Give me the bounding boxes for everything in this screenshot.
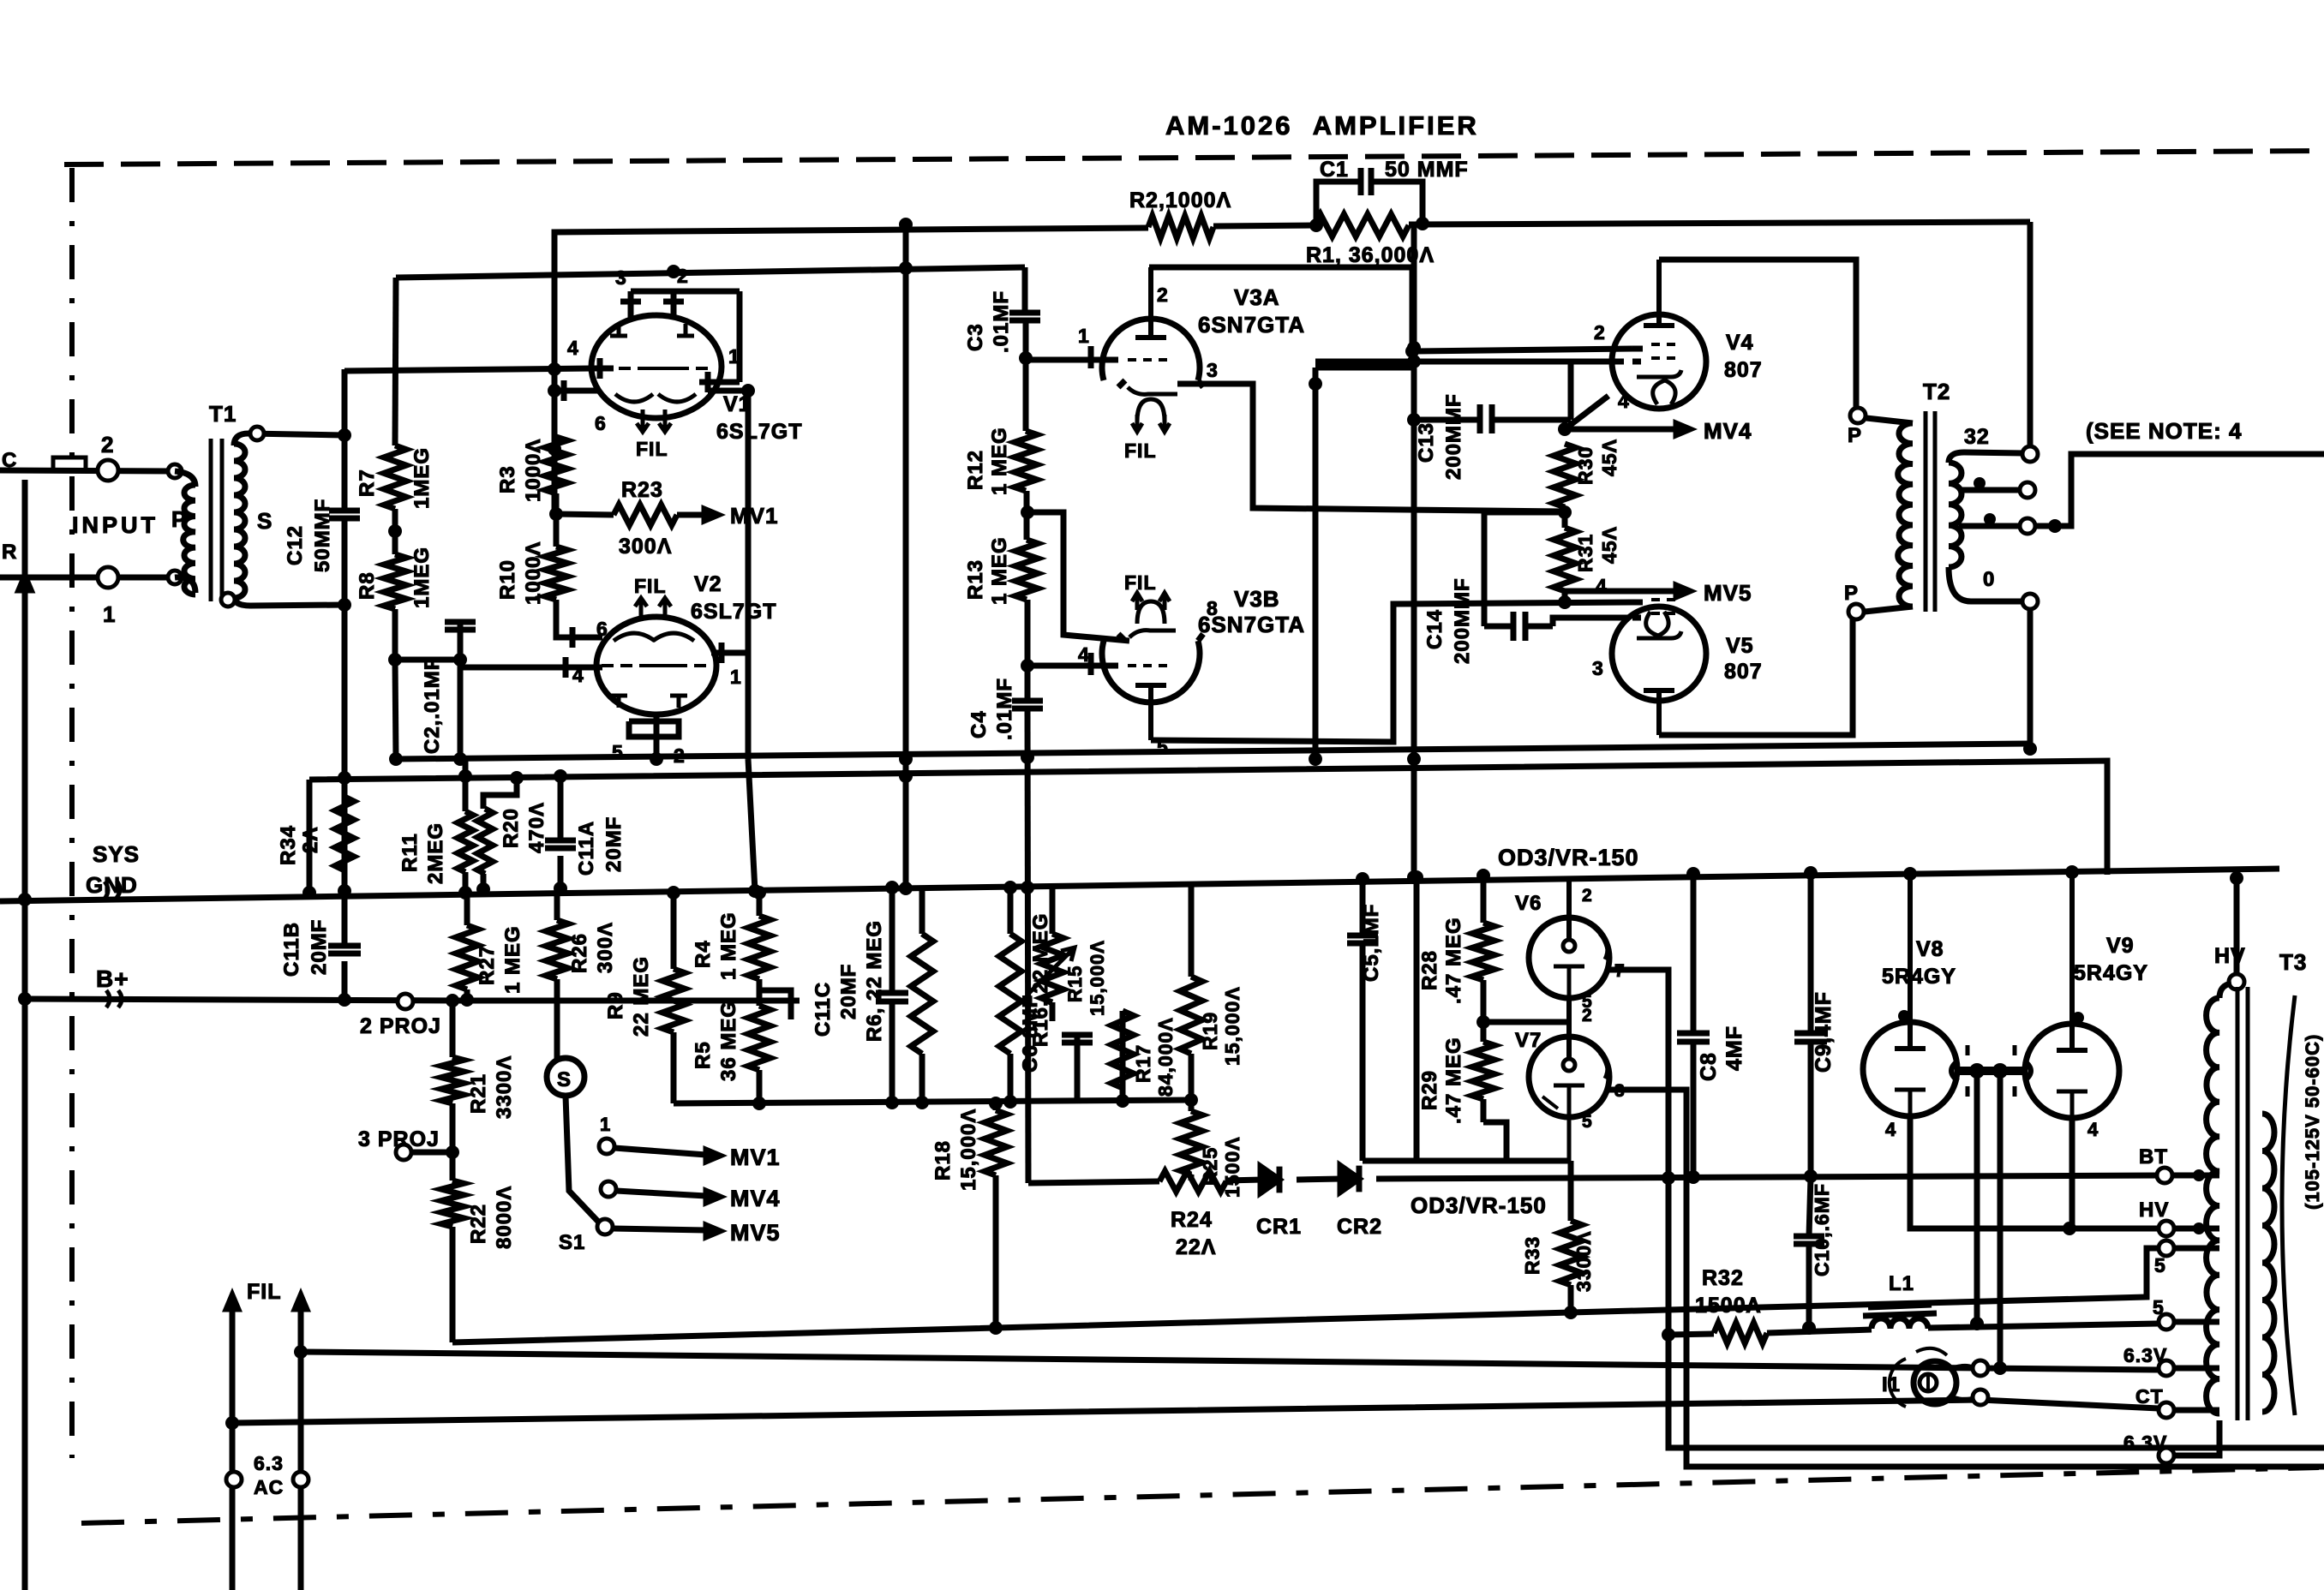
wire T2 tap8 out [2035, 454, 2324, 533]
wire R8 to C2 [388, 609, 548, 759]
svg-text:1MEG: 1MEG [410, 447, 434, 509]
svg-text:MV5: MV5 [1704, 580, 1752, 606]
svg-text:6: 6 [595, 412, 607, 434]
wire V6V7 box bottom [1363, 1158, 1571, 1164]
wire R12-R13 tap to V3B cathode [1027, 512, 1129, 641]
label C12 50MMF [284, 499, 334, 572]
svg-text:R24: R24 [1171, 1208, 1213, 1232]
resistor R34 [335, 797, 354, 870]
wire x1650 riser [1407, 224, 1421, 884]
wire C9 column [1794, 866, 1827, 1176]
label C1 50MMF [1385, 158, 1469, 182]
label V2 [694, 572, 722, 596]
label V3A 6SN7GTA [1198, 312, 1305, 338]
terminal 2 PROJ [398, 994, 413, 1009]
label FIL V3A [1124, 439, 1157, 462]
T3 right bracket [2282, 995, 2295, 1415]
wire top feedback run [554, 217, 2030, 237]
svg-text:.47 MEG: .47 MEG [1442, 1037, 1465, 1124]
diode CR2 [1340, 1166, 1359, 1192]
label C9 4MF [1812, 991, 1836, 1073]
wire R27 column [460, 893, 474, 1007]
tube V2 6SL7GT [548, 598, 748, 759]
label C14 200MMF [1423, 577, 1474, 664]
svg-text:470Λ: 470Λ [525, 802, 548, 853]
wire V9 bottom [2069, 1118, 2075, 1228]
label R34 2 [277, 825, 322, 865]
svg-text:4: 4 [1618, 390, 1630, 412]
svg-text:R33: R33 [1521, 1236, 1543, 1275]
label 3 PROJ [358, 1127, 440, 1151]
wire line LA [301, 1352, 2159, 1375]
filament bridge V8V9 [1951, 1045, 2031, 1097]
arrow up on left rail [19, 576, 31, 590]
capacitor C12 [329, 511, 360, 518]
svg-text:C13: C13 [1415, 422, 1438, 463]
resistor R18 [985, 1110, 1007, 1175]
svg-text:4MF: 4MF [1722, 1025, 1746, 1071]
label B+ [96, 965, 129, 992]
tube V8 [1863, 867, 1957, 1116]
wire V6 pin7 drop [1609, 970, 2324, 1448]
wire B+ bus [25, 999, 800, 1001]
wire C8 column [1677, 867, 1710, 1177]
label S1 [559, 1231, 585, 1254]
label V8 5R4GY [1882, 965, 1956, 989]
svg-text:3: 3 [1592, 657, 1604, 679]
label I1 [1882, 1373, 1901, 1396]
resistor R28 [1472, 923, 1494, 980]
label R25 1500 [1199, 1136, 1243, 1198]
label R21 3300 [467, 1055, 516, 1119]
label C11A 20MF [575, 816, 626, 876]
svg-text:R22: R22 [467, 1204, 490, 1244]
svg-text:20MF: 20MF [602, 816, 626, 872]
svg-text:15,000Λ: 15,000Λ [1221, 986, 1243, 1066]
label L1 [1889, 1272, 1914, 1295]
capacitor C1 box [1316, 168, 1423, 223]
svg-text:I1: I1 [1882, 1373, 1901, 1396]
svg-text:R3: R3 [496, 465, 519, 493]
label R33 3300 [1521, 1230, 1595, 1292]
wire R4R5 column [752, 886, 791, 1110]
svg-text:1 MEG: 1 MEG [717, 912, 740, 980]
resistor R29 [1472, 1042, 1494, 1099]
wire H_B T1 to V1 grid [344, 362, 592, 376]
wire MV1 [614, 1148, 720, 1162]
wire V6V7 box left [1410, 870, 1423, 1161]
T2 tap 16 [1959, 477, 2035, 498]
tube V6 [1529, 877, 1609, 998]
label FIL V3B [1124, 571, 1157, 594]
label V5 [1726, 634, 1754, 658]
terminal P bottom [1844, 582, 1864, 619]
svg-text:C6 8MF: C6 8MF [1019, 995, 1042, 1073]
svg-text:C5,1MF: C5,1MF [1360, 904, 1383, 982]
label R15 15000 [1064, 940, 1108, 1016]
label FIL V2 [634, 575, 667, 597]
label 2 PROJ [360, 1014, 441, 1038]
label R17 84000 [1132, 1017, 1177, 1097]
wire riser x462 [395, 278, 396, 445]
svg-text:R30: R30 [1574, 446, 1596, 485]
input terminal 1 [98, 567, 118, 627]
svg-text:R4: R4 [692, 940, 715, 968]
svg-text:C14: C14 [1423, 609, 1447, 649]
wire V8 bottom [1910, 1116, 2159, 1228]
wire LH1 [452, 1248, 2159, 1342]
svg-text:1 MEG: 1 MEG [501, 925, 524, 994]
wire MV5 node [1558, 585, 1690, 609]
label V5 pin3 [1592, 657, 1604, 679]
terminal 6.3AC a [226, 1472, 242, 1487]
svg-text:FIL: FIL [247, 1280, 282, 1304]
svg-text:C11C: C11C [812, 982, 835, 1037]
svg-text:R34: R34 [277, 825, 300, 865]
svg-text:4: 4 [2087, 1119, 2099, 1140]
svg-text:15,000Λ: 15,000Λ [1087, 940, 1108, 1016]
label FIL bottom [247, 1280, 282, 1304]
svg-text:R27: R27 [476, 945, 499, 985]
terminal 5a [2159, 1240, 2219, 1256]
transformer T1 secondary [234, 444, 245, 598]
resistor R10 [545, 547, 567, 600]
label 63a [2123, 1344, 2167, 1366]
wire line LB2 [232, 1393, 2159, 1423]
transformer T2 primary [1865, 418, 1913, 612]
svg-text:V5: V5 [1726, 634, 1754, 658]
label V4 pin2 [1594, 321, 1606, 344]
resistor R25 [1180, 1111, 1202, 1175]
wire term2 to T1 primary [175, 471, 195, 487]
svg-text:4: 4 [572, 664, 584, 686]
wire R7-R8 link [388, 509, 402, 554]
wire V7 pin3 drop [1609, 1090, 2324, 1467]
label 6.3 AC [254, 1452, 284, 1498]
svg-text:C1: C1 [1320, 158, 1349, 182]
svg-text:SYS: SYS [93, 841, 140, 867]
svg-text:R2,1000Λ: R2,1000Λ [1129, 188, 1231, 212]
svg-text:OD3/VR-150: OD3/VR-150 [1411, 1192, 1547, 1218]
svg-text:6SN7GTA: 6SN7GTA [1198, 312, 1305, 338]
resistor R1 [1315, 214, 1409, 236]
label R29 47MEG [1418, 1037, 1465, 1124]
svg-text:T2: T2 [1923, 379, 1950, 404]
label C8 4MF [1697, 1025, 1746, 1081]
svg-text:6.3: 6.3 [254, 1452, 284, 1474]
label R10 1000 [496, 541, 545, 605]
svg-text:1: 1 [730, 666, 742, 688]
label 5a [2154, 1254, 2166, 1276]
svg-text:5: 5 [1582, 1112, 1593, 1132]
svg-text:22Λ: 22Λ [1176, 1235, 1216, 1259]
wire V4 grid line2 [1315, 359, 1624, 365]
label C5 1MF [1360, 904, 1383, 982]
wire sys gnd bus [0, 869, 2279, 901]
label V2 pins [572, 618, 742, 767]
terminal BT [2139, 1145, 2219, 1183]
svg-text:.01MF: .01MF [990, 290, 1013, 353]
terminal MV5 contact [597, 1219, 613, 1234]
svg-text:S: S [257, 508, 273, 534]
label FIL V1 [636, 438, 668, 460]
resistor R8 [384, 554, 406, 609]
label V9 5R4GY [2074, 961, 2148, 985]
svg-text:200MMF: 200MMF [1442, 393, 1465, 480]
svg-text:FIL: FIL [1124, 439, 1157, 462]
wire fil drop a [1970, 1071, 1984, 1330]
wire V3B plate to V5 [1151, 602, 1632, 742]
label V2 6SL7GT [691, 600, 776, 624]
filament V3B [1132, 593, 1170, 624]
transformer T1 core [211, 439, 222, 601]
label T1 [209, 401, 237, 427]
wire V2 bottom drop [650, 737, 663, 766]
svg-text:807: 807 [1724, 660, 1763, 684]
svg-text:V9: V9 [2106, 934, 2135, 958]
label R32 [1695, 1266, 1761, 1318]
wire plate row y317 [396, 261, 1025, 278]
label P primary [171, 506, 187, 532]
svg-text:MV1: MV1 [730, 1145, 781, 1170]
label V1 6SL7GT [716, 420, 802, 444]
svg-text:T1: T1 [209, 401, 237, 427]
svg-text:1000Λ: 1000Λ [522, 541, 545, 605]
svg-text:(SEE NOTE: 4: (SEE NOTE: 4 [2086, 418, 2242, 444]
transformer T1 primary [183, 485, 195, 595]
svg-text:C: C [2, 449, 17, 472]
label C3 .01MF [964, 290, 1013, 353]
svg-text:22 MEG: 22 MEG [630, 956, 653, 1037]
svg-text:5: 5 [2153, 1296, 2165, 1318]
svg-text:.47 MEG: .47 MEG [1442, 917, 1465, 1004]
svg-text:R11: R11 [398, 833, 422, 872]
tube V5 807 [1612, 600, 1706, 735]
label V1 [723, 392, 752, 416]
label V1 pins [567, 265, 740, 434]
label R4 1MEG [692, 912, 740, 980]
svg-text:32: 32 [1964, 425, 1990, 449]
label MV4 sw [730, 1186, 781, 1211]
terminal 6.3AC b [293, 1472, 308, 1487]
label R5 36MEG [692, 1001, 740, 1081]
terminal 63a [2159, 1360, 2219, 1376]
terminal 63b [2159, 1420, 2219, 1463]
wire R30-R31 [1558, 505, 1572, 528]
wire FIL column b [294, 1295, 308, 1590]
resistor R11 [458, 811, 473, 872]
svg-text:INPUT: INPUT [72, 512, 159, 538]
svg-text:V4: V4 [1726, 331, 1754, 355]
svg-text:FIL: FIL [634, 575, 667, 597]
svg-text:1 MEG: 1 MEG [988, 427, 1011, 495]
svg-text:R13: R13 [964, 559, 987, 600]
terminal HV top [2229, 871, 2244, 989]
svg-text:2: 2 [1594, 321, 1606, 344]
T1 secondary bottom lead [221, 593, 344, 607]
label SEE NOTE [2086, 418, 2242, 444]
resistor R2 [1148, 216, 1213, 238]
svg-text:B+: B+ [96, 965, 129, 992]
label R18 15000 [931, 1109, 980, 1191]
resistor R9 [662, 969, 685, 1032]
terminal CT [2159, 1402, 2219, 1418]
terminal HV left [2139, 1198, 2219, 1236]
capacitor C6 column [1062, 1035, 1093, 1103]
svg-text:AM-1026 AMPLIFIER: AM-1026 AMPLIFIER [1165, 111, 1479, 140]
wire R19R25 column [1184, 882, 1198, 1181]
resistor R12 [1015, 431, 1037, 491]
resistor R23 [556, 505, 677, 525]
label SYS GND [86, 841, 140, 898]
svg-text:1: 1 [1078, 325, 1090, 347]
label V6 [1515, 892, 1542, 915]
capacitor C5 [1347, 935, 1378, 943]
svg-text:R31: R31 [1574, 534, 1596, 572]
label R23 [621, 478, 663, 502]
wire bias bus [309, 761, 2107, 875]
svg-text:V7: V7 [1515, 1029, 1542, 1052]
label R26 300 [568, 922, 617, 973]
svg-text:300Λ: 300Λ [594, 922, 617, 973]
svg-text:C4: C4 [967, 710, 991, 738]
wire R28 link [1483, 1019, 1569, 1025]
svg-text:5R4GY: 5R4GY [1882, 965, 1956, 989]
svg-text:FIL: FIL [1124, 571, 1157, 594]
input terminal 2 [98, 432, 118, 481]
label C2 .01MF [421, 657, 444, 754]
label C4 .01MF [967, 678, 1016, 740]
wire V3 column x1057 [899, 218, 913, 895]
wire R22 to LH1 [450, 1227, 456, 1342]
label CR2 [1337, 1215, 1382, 1239]
svg-text:C2,.01MF: C2,.01MF [421, 657, 444, 754]
label T3 [2279, 949, 2307, 975]
label R31 45 [1574, 526, 1620, 572]
label V3A [1234, 284, 1280, 310]
label R8 1MEG [356, 547, 434, 608]
capacitor C11B [328, 946, 361, 953]
label V3A pins [1078, 284, 1219, 381]
svg-text:MV4: MV4 [1704, 418, 1752, 444]
label R source [2, 541, 17, 564]
svg-text:C3: C3 [964, 323, 987, 351]
svg-text:50 MMF: 50 MMF [1385, 158, 1469, 182]
label C1 [1320, 158, 1349, 182]
wire V3A top loop [1149, 267, 1419, 368]
wire MV4 [616, 1191, 720, 1203]
wire T2 fb riser [2028, 222, 2033, 446]
capacitor C4 [1012, 701, 1043, 708]
svg-text:2: 2 [677, 265, 689, 287]
wire C13 link [1407, 362, 1571, 427]
label V5 pin4 [1596, 575, 1608, 597]
resistor R6 [911, 934, 933, 1054]
label V8 [1916, 937, 1944, 961]
svg-text:20MF: 20MF [308, 919, 331, 975]
resistor R22 [441, 1181, 464, 1227]
svg-text:3: 3 [615, 266, 627, 289]
wire LB lower bus [674, 1095, 1191, 1109]
svg-text:1: 1 [728, 345, 740, 368]
tube V3A 6SN7GTA [1025, 267, 1565, 511]
svg-text:R15: R15 [1064, 965, 1086, 1002]
svg-text:.01MF: .01MF [993, 678, 1016, 740]
wire x873 to gnd [748, 759, 762, 898]
wire R9 column [667, 886, 680, 1103]
terminal P top [1848, 408, 1866, 447]
svg-text:5: 5 [2154, 1254, 2166, 1276]
inductor L1 [1863, 1305, 1937, 1329]
svg-text:S: S [557, 1068, 572, 1091]
svg-text:2MEG: 2MEG [424, 822, 447, 884]
svg-text:(105-125V 50-60C): (105-125V 50-60C) [2302, 1034, 2323, 1210]
wire C5 column [1356, 872, 1369, 1161]
label 5b [2153, 1296, 2165, 1318]
resistor R26 [546, 920, 568, 979]
svg-text:V8: V8 [1916, 937, 1944, 961]
svg-text:807: 807 [1724, 358, 1763, 382]
diode CR1 [1261, 1167, 1279, 1193]
svg-text:1000Λ: 1000Λ [522, 439, 545, 502]
wire C2 column [453, 622, 467, 766]
border dashed bottom [81, 1467, 2319, 1523]
resistor R31 [1554, 528, 1576, 591]
capacitor C11A column [545, 769, 576, 895]
label R13 1MEG [964, 536, 1011, 605]
svg-text:P: P [1844, 582, 1859, 605]
svg-text:GND: GND [86, 872, 138, 898]
wire MV5 [613, 1225, 720, 1236]
label R3 1000 [496, 439, 545, 502]
transformer T2 core [1926, 411, 1935, 612]
capacitor C14 [1513, 612, 1525, 641]
transformer T3 core [2237, 987, 2248, 1420]
label V7 [1515, 1029, 1542, 1052]
label S secondary [257, 508, 273, 534]
wire diode line [1028, 1169, 2165, 1235]
label R19 15000 [1199, 986, 1243, 1066]
label R20 470 [500, 802, 548, 853]
resistor R30 [1554, 444, 1576, 507]
svg-text:CR1: CR1 [1256, 1215, 1302, 1239]
svg-text:R9: R9 [604, 991, 627, 1019]
resistor R32 [1714, 1323, 1767, 1343]
label R24 22 [1171, 1208, 1216, 1259]
transformer T2 secondary [1949, 463, 1962, 567]
label T2 [1923, 379, 1950, 404]
label R22 8000 [467, 1186, 516, 1249]
svg-text:BT: BT [2139, 1145, 2168, 1169]
svg-text:T3: T3 [2279, 949, 2307, 975]
svg-text:FIL: FIL [636, 438, 668, 460]
svg-text:3: 3 [1207, 359, 1219, 381]
label C13 200MMF [1415, 393, 1465, 480]
wire V3A drive to V4 [1412, 349, 1632, 351]
label R27 1MEG [476, 925, 524, 994]
wire R17 column [1116, 1011, 1129, 1108]
wire R6 column [919, 888, 925, 1103]
svg-text:2: 2 [1582, 886, 1593, 906]
svg-text:R26: R26 [568, 933, 591, 973]
wire R29 bottom link [1483, 1122, 1506, 1161]
switch S1 [547, 1058, 584, 1096]
resistor R19 [1180, 977, 1202, 1054]
label V8 pin4 [1885, 1119, 1896, 1140]
svg-text:P: P [1848, 424, 1862, 447]
resistor R33 [1560, 1221, 1582, 1285]
resistor R3 [545, 437, 567, 493]
